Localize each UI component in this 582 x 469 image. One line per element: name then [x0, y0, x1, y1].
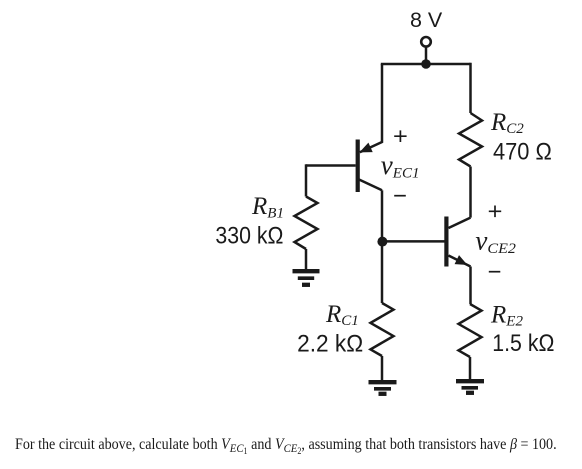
wire: supply stub [425, 47, 428, 64]
svg-text:1.5 kΩ: 1.5 kΩ [492, 330, 554, 357]
wire: RE2 bottom lead [469, 357, 472, 381]
transistor Q1 [358, 140, 382, 193]
wire: RC1 top lead [381, 241, 384, 304]
resistor RC2 [459, 113, 482, 167]
label: vCE2 minus [489, 271, 501, 273]
svg-text:RC2: RC2 [490, 109, 524, 137]
wire: node to Q2 base [382, 240, 445, 243]
caption text [15, 436, 557, 456]
resistor RB1 [295, 197, 318, 250]
transistor Q2 [446, 217, 470, 267]
wire: RB1 top lead [305, 164, 308, 196]
svg-text:470 Ω: 470 Ω [493, 138, 552, 165]
supply terminal 8 V node [421, 37, 431, 47]
svg-text:RE2: RE2 [490, 302, 523, 330]
svg-text:vEC1: vEC1 [381, 150, 420, 182]
ground (RC1) [369, 382, 397, 394]
resistor RE2 [459, 304, 482, 357]
svg-text:330 kΩ: 330 kΩ [215, 223, 283, 250]
wire: Q2 emitter to RE2 [469, 267, 472, 305]
wire: RC1 bottom lead [381, 356, 384, 382]
wire: RB1 bottom lead [305, 249, 308, 271]
junction: top rail node [421, 59, 431, 69]
label: vCE2 plus [489, 206, 501, 218]
ground (RB1) [293, 271, 320, 285]
svg-text:2.2 kΩ: 2.2 kΩ [297, 330, 363, 357]
label: vEC1 plus [394, 130, 406, 142]
ground (RE2) [456, 381, 484, 393]
svg-text:RB1: RB1 [251, 193, 284, 222]
wire: Q1 base lead [306, 164, 356, 167]
resistor RC1 [371, 303, 394, 356]
wire: RC2 top lead [469, 63, 472, 113]
wire: RC2 to Q2 collector [469, 167, 472, 218]
wire: left drop to Q1 emitter [360, 64, 382, 152]
wire: Q1 collector drop [381, 190, 384, 241]
svg-text:RC1: RC1 [325, 301, 359, 329]
junction: Q1 collector / Q2 base node [377, 237, 387, 247]
svg-text:8 V: 8 V [410, 8, 443, 32]
wire: top rail [381, 63, 471, 66]
label: vEC1 minus [394, 195, 406, 197]
svg-text:vCE2: vCE2 [475, 226, 516, 258]
